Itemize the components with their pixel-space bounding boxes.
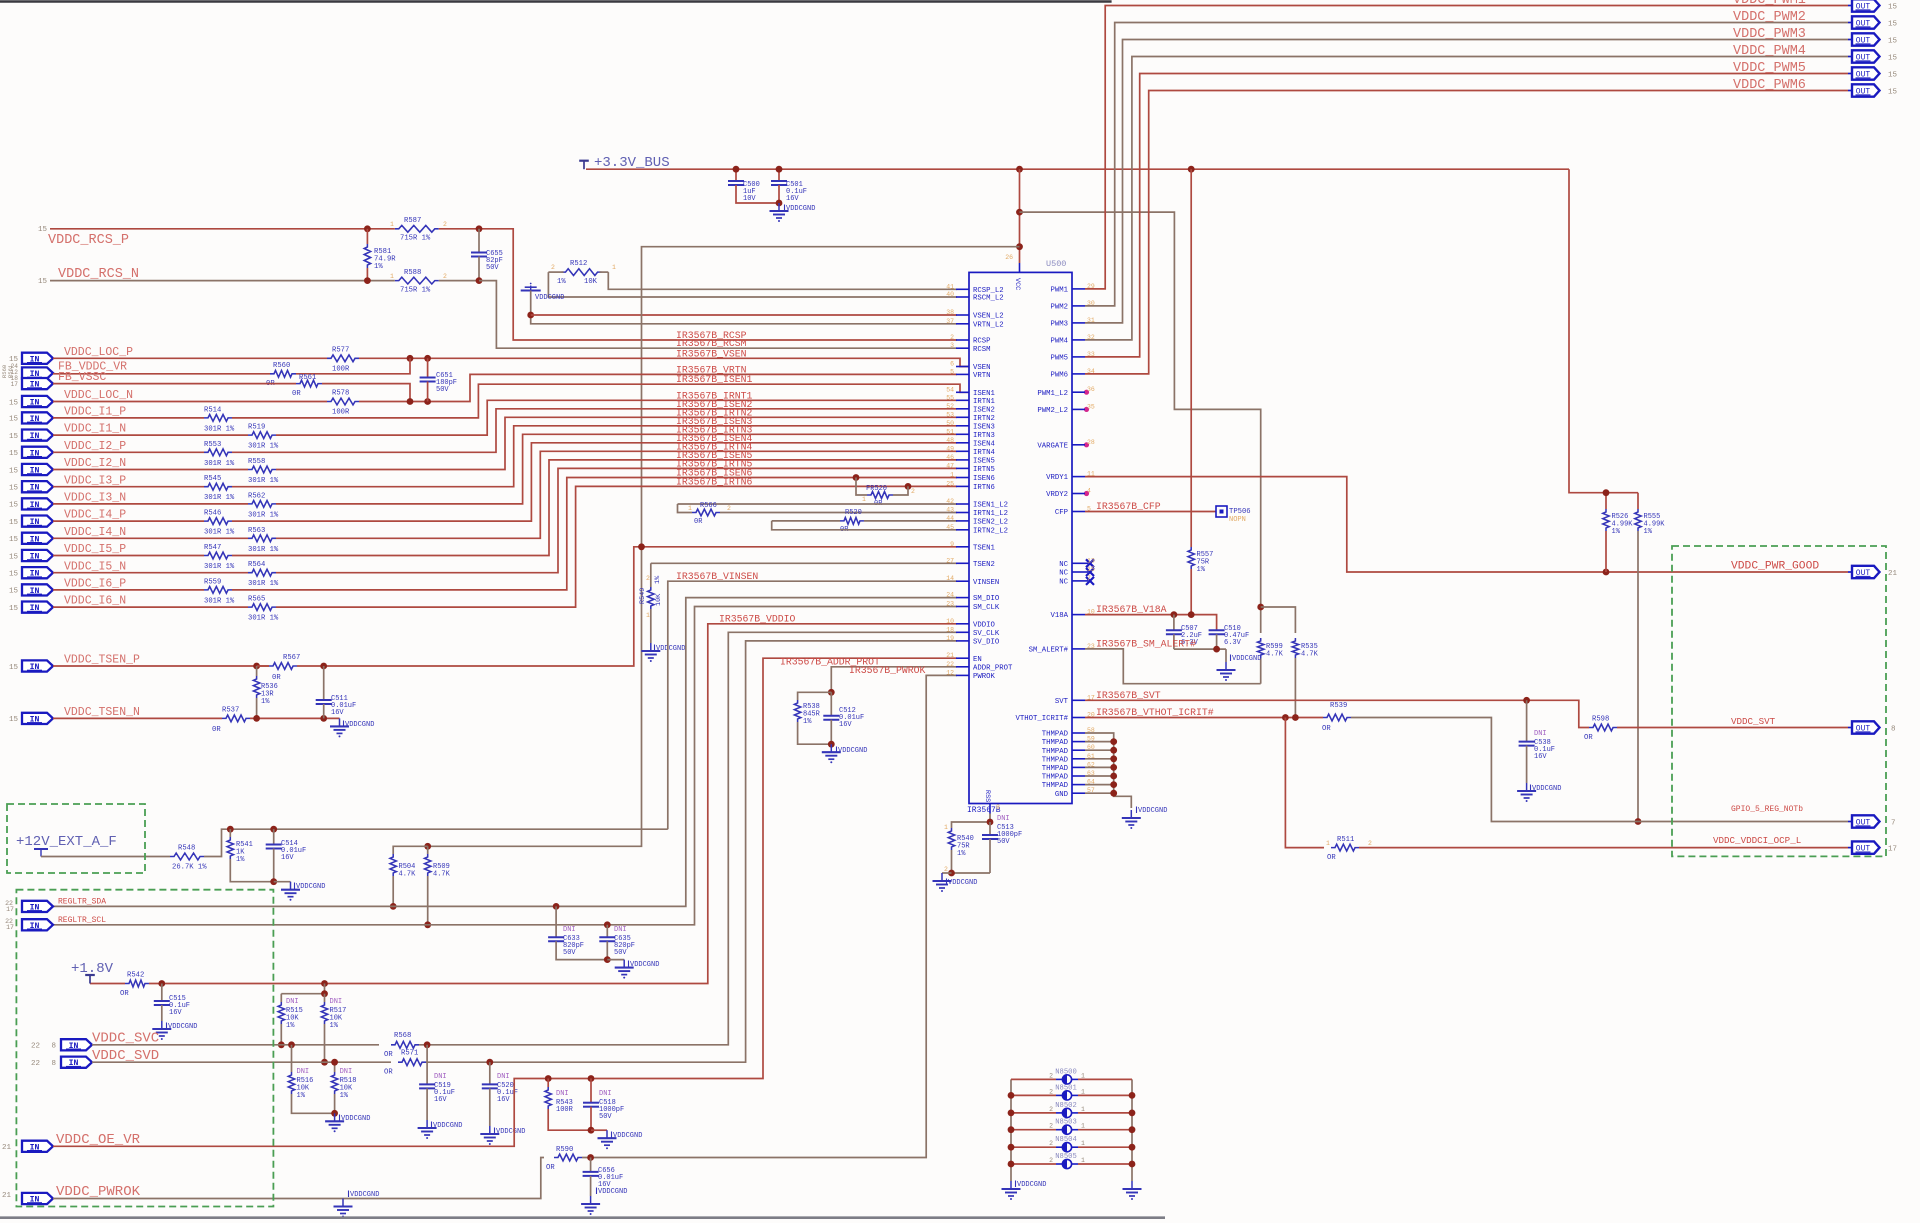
IC pin THMPAD right <box>1072 758 1085 760</box>
resistor R559 <box>204 587 232 594</box>
svg-text:DNI: DNI <box>434 1073 447 1081</box>
svg-text:VDDC_I6_P: VDDC_I6_P <box>64 578 126 591</box>
svg-text:21: 21 <box>946 652 954 659</box>
IC pin SV_CLK <box>956 631 969 633</box>
svg-text:TP506: TP506 <box>1229 508 1251 516</box>
svg-text:715R 1%: 715R 1% <box>400 287 431 295</box>
ground VDDCGND C514 <box>274 881 291 883</box>
title block edge <box>0 1216 1165 1219</box>
wire VDDC_OE_VR to EN <box>53 658 957 1146</box>
svg-text:R553: R553 <box>204 441 221 449</box>
testpoint TP506 <box>1216 506 1227 517</box>
svg-text:55: 55 <box>946 394 954 401</box>
svg-text:22: 22 <box>31 1043 40 1051</box>
resistor R509 <box>427 846 429 854</box>
node VCC pullup branch <box>1016 209 1023 216</box>
resistor R587 <box>395 225 439 232</box>
capacitor C519 DNI <box>426 1045 428 1085</box>
IC U500 IR3567B body <box>969 272 1072 803</box>
svg-text:22: 22 <box>946 661 954 668</box>
capacitor C651 <box>427 358 429 377</box>
IC pin RCSP_L2 <box>956 288 969 290</box>
svg-text:SM_DIO: SM_DIO <box>973 595 1000 603</box>
svg-text:33: 33 <box>1087 351 1095 358</box>
svg-text:64: 64 <box>1087 779 1095 786</box>
svg-text:DNI: DNI <box>563 926 576 934</box>
svg-text:16V: 16V <box>434 1096 447 1104</box>
svg-text:THMPAD: THMPAD <box>1042 739 1069 747</box>
wire R511 branch <box>1285 718 1324 848</box>
nc cross NC1 <box>1085 562 1088 564</box>
IC pin THMPAD right <box>1072 775 1085 777</box>
IC pin SM_CLK <box>956 606 969 608</box>
svg-text:R560: R560 <box>273 362 290 370</box>
resistor R536 <box>256 666 258 676</box>
svg-text:VDDC_I4_N: VDDC_I4_N <box>64 526 126 539</box>
svg-text:VDDC_I1_N: VDDC_I1_N <box>64 423 126 436</box>
svg-text:11: 11 <box>1087 471 1095 478</box>
svg-text:R514: R514 <box>204 406 221 414</box>
svg-text:1%: 1% <box>1644 528 1653 536</box>
svg-text:2: 2 <box>950 334 954 341</box>
wire PWM2 <box>1085 23 1848 306</box>
svg-text:1%: 1% <box>330 1022 339 1030</box>
capacitor C656 <box>590 1158 592 1172</box>
svg-text:VDDCGND: VDDCGND <box>656 645 685 653</box>
wire +3.3V bus horizontal <box>586 168 1569 170</box>
svg-text:VDDC_TSEN_P: VDDC_TSEN_P <box>64 654 140 667</box>
svg-text:NC: NC <box>1059 561 1068 569</box>
node R535 branch <box>1257 604 1264 611</box>
svg-text:IR3567B_CFP: IR3567B_CFP <box>1096 501 1161 512</box>
net tie N8500 <box>1011 1078 1056 1080</box>
capacitor C512 <box>830 692 832 715</box>
wire THMPAD bus <box>1085 733 1131 808</box>
IC pin IRTN6 <box>956 485 969 487</box>
resistor R567 <box>269 663 297 670</box>
svg-text:OR: OR <box>1322 725 1331 733</box>
svg-text:IR3567B_V18A: IR3567B_V18A <box>1096 604 1167 615</box>
node dangling PWM2_L2 <box>1084 407 1089 412</box>
svg-text:25: 25 <box>946 480 954 487</box>
svg-text:VDDC_VDDCI_OCP_L: VDDC_VDDCI_OCP_L <box>1713 835 1801 846</box>
svg-text:63: 63 <box>1087 770 1095 777</box>
svg-text:51: 51 <box>946 428 954 435</box>
svg-text:THMPAD: THMPAD <box>1042 765 1069 773</box>
svg-text:1: 1 <box>1081 1157 1085 1164</box>
IC pin RSCM_L2 <box>956 296 969 298</box>
IC pin ISEN5 <box>956 459 969 461</box>
svg-text:R568: R568 <box>394 1032 411 1040</box>
top frame edge <box>0 0 1112 3</box>
wire PWM4 <box>1085 57 1848 340</box>
svg-text:VDDCGND: VDDCGND <box>630 961 659 969</box>
svg-text:10: 10 <box>946 618 954 625</box>
svg-text:VTHOT_ICRIT#: VTHOT_ICRIT# <box>1015 715 1068 723</box>
svg-text:R520: R520 <box>845 509 862 517</box>
svg-text:VDDCGND: VDDCGND <box>1232 655 1261 663</box>
svg-text:2: 2 <box>1368 840 1372 847</box>
resistor R562 <box>248 501 276 508</box>
wire IRTN2_L2 <box>772 521 957 530</box>
svg-text:301R 1%: 301R 1% <box>248 511 279 519</box>
svg-text:10V: 10V <box>743 195 756 203</box>
svg-text:26.7K 1%: 26.7K 1% <box>172 864 207 872</box>
svg-text:1%: 1% <box>340 1092 349 1100</box>
wire VDDC_LOC_P <box>53 357 327 359</box>
ground VDDCGND C633/C635 <box>607 959 624 961</box>
svg-text:ADDR_PROT: ADDR_PROT <box>973 664 1013 672</box>
svg-text:DNI: DNI <box>340 1068 353 1076</box>
ground VDDCGND at R512 <box>530 286 532 291</box>
svg-text:R567: R567 <box>283 654 300 662</box>
svg-text:ISEN2_L2: ISEN2_L2 <box>973 519 1008 527</box>
net tie N8504 <box>1011 1146 1056 1148</box>
resistor R560 <box>270 370 296 377</box>
svg-text:OR: OR <box>384 1069 393 1077</box>
svg-text:41: 41 <box>946 283 954 290</box>
svg-text:VDDC_PWM1: VDDC_PWM1 <box>1733 0 1806 8</box>
resistor R539 <box>1323 714 1351 721</box>
svg-text:R588: R588 <box>404 269 421 277</box>
svg-text:30: 30 <box>1087 300 1095 307</box>
wire C507/C510 ground rail <box>1174 648 1226 650</box>
resistor R598 <box>1589 724 1617 731</box>
wire VDDC_I5_N <box>53 572 248 574</box>
svg-text:1: 1 <box>1081 1106 1085 1113</box>
svg-text:PWM5: PWM5 <box>1050 355 1068 363</box>
svg-text:SVT: SVT <box>1055 698 1069 706</box>
svg-text:8: 8 <box>1891 726 1896 734</box>
svg-text:VRDY2: VRDY2 <box>1046 491 1068 499</box>
svg-text:1%: 1% <box>286 1022 295 1030</box>
IC pin THMPAD right <box>1072 749 1085 751</box>
wire VDDC_I4_P <box>53 520 204 522</box>
port VDDC_SVT OUT <box>1848 727 1852 729</box>
port VDDC_PWM2 OUT <box>1848 22 1852 24</box>
port VDDC_PWM3 OUT <box>1848 39 1852 41</box>
port VDDC_PWM1 OUT <box>1848 5 1852 7</box>
svg-text:TSEN1: TSEN1 <box>973 544 996 552</box>
svg-text:1: 1 <box>950 472 954 479</box>
svg-text:19: 19 <box>946 635 954 642</box>
svg-text:1: 1 <box>612 264 616 271</box>
svg-text:R577: R577 <box>332 347 349 355</box>
resistor R571 <box>398 1059 426 1066</box>
resistor R548 <box>170 853 204 860</box>
svg-text:1%: 1% <box>297 1092 306 1100</box>
svg-text:IR3567B_ISEN1: IR3567B_ISEN1 <box>676 374 753 385</box>
svg-text:12: 12 <box>946 669 954 676</box>
svg-text:1%: 1% <box>557 278 566 286</box>
svg-text:15: 15 <box>1888 4 1898 12</box>
power +3.3V_BUS <box>583 161 585 170</box>
capacitor C655 <box>478 229 480 253</box>
svg-text:27: 27 <box>946 557 954 564</box>
IC pin GND right <box>1072 792 1085 794</box>
svg-text:50V: 50V <box>997 838 1010 846</box>
nc cross NC2 <box>1085 571 1088 573</box>
IC pin ISEN4 <box>956 442 969 444</box>
capacitor C507 <box>1173 615 1175 631</box>
resistor R518 DNI <box>334 1062 336 1072</box>
resistor R504 <box>390 854 396 876</box>
green dashed box bottom-left <box>16 890 273 1207</box>
svg-text:OR: OR <box>546 1164 555 1172</box>
svg-text:IRTN2_L2: IRTN2_L2 <box>973 527 1008 535</box>
svg-text:VDDCGND: VDDCGND <box>948 879 977 887</box>
svg-text:15: 15 <box>1888 89 1898 97</box>
resistor R577 <box>327 355 359 362</box>
svg-text:VDDC_PWM3: VDDC_PWM3 <box>1733 27 1806 42</box>
svg-text:29: 29 <box>1087 283 1095 290</box>
svg-text:DNI: DNI <box>556 1090 569 1098</box>
resistor R599 <box>1258 638 1264 658</box>
capacitor C515 <box>161 984 163 1002</box>
svg-text:4.7K: 4.7K <box>1301 651 1319 659</box>
svg-text:14: 14 <box>946 575 954 582</box>
svg-text:R558: R558 <box>248 458 265 466</box>
wire VDDC_I1_N <box>53 434 248 436</box>
IC pin PWM2_L2 right <box>1072 408 1085 410</box>
svg-text:OR: OR <box>1584 734 1593 742</box>
svg-text:V18A: V18A <box>1050 612 1068 620</box>
svg-text:15: 15 <box>9 664 19 672</box>
wire VCC riser <box>1019 169 1021 263</box>
svg-text:301R 1%: 301R 1% <box>248 580 279 588</box>
resistor R561 <box>296 380 322 387</box>
resistor R566 <box>678 504 693 513</box>
wire R539 to GPIO_5_REG_NOTb <box>1351 718 1848 822</box>
svg-text:13: 13 <box>1087 557 1095 564</box>
svg-text:IR3567B_VSEN: IR3567B_VSEN <box>676 348 747 359</box>
svg-text:1: 1 <box>944 824 948 831</box>
svg-text:DNI: DNI <box>286 998 299 1006</box>
wire R598 to VDDC_SVT out <box>1617 727 1848 729</box>
svg-text:N8503: N8503 <box>1055 1119 1077 1127</box>
ground VDDCGND C512 <box>830 744 832 752</box>
wire VDDC_I1_P <box>53 417 204 419</box>
wire VDDC_I3_P <box>53 486 204 488</box>
ground VDDCGND C518 <box>591 1129 607 1131</box>
wire THMPAD pin <box>1085 758 1114 760</box>
svg-text:16V: 16V <box>331 709 344 717</box>
wire branch to R535 <box>1261 607 1296 633</box>
IC pin CFP right <box>1072 511 1085 513</box>
IC pin VSEN <box>956 366 969 368</box>
svg-text:60: 60 <box>1087 744 1095 751</box>
svg-text:301R 1%: 301R 1% <box>204 563 235 571</box>
capacitor C538 DNI <box>1526 700 1528 741</box>
svg-text:VDDCGND: VDDCGND <box>433 1122 462 1130</box>
svg-text:1: 1 <box>862 496 866 503</box>
wire VDDC_RCS_N <box>50 280 367 282</box>
resistor R581 <box>364 244 370 268</box>
svg-text:R587: R587 <box>404 217 421 225</box>
svg-text:PWM2_L2: PWM2_L2 <box>1037 407 1068 415</box>
svg-text:4.7K: 4.7K <box>399 871 417 879</box>
svg-text:OR: OR <box>120 990 129 998</box>
svg-text:0R: 0R <box>272 674 281 682</box>
IC pin IRTN5 <box>956 467 969 469</box>
wire +12V to VINSEN <box>668 581 957 829</box>
wire +12V_EXT_A_F <box>41 856 170 858</box>
capacitor C513 DNI <box>989 822 991 835</box>
svg-text:15: 15 <box>38 226 48 234</box>
svg-text:20: 20 <box>1087 712 1095 719</box>
svg-text:THMPAD: THMPAD <box>1042 756 1069 764</box>
svg-text:GND: GND <box>1055 791 1069 799</box>
IC pin PWM2 right <box>1072 305 1085 307</box>
svg-text:50V: 50V <box>486 264 499 272</box>
port VDDC_PWM4 OUT <box>1848 56 1852 58</box>
svg-text:PWM6: PWM6 <box>1050 372 1068 380</box>
IC pin ISEN2 <box>956 408 969 410</box>
svg-text:R571: R571 <box>401 1049 418 1057</box>
svg-text:NOPN: NOPN <box>1229 516 1246 524</box>
IC pin THMPAD right <box>1072 784 1085 786</box>
svg-text:8: 8 <box>51 1060 56 1068</box>
svg-text:ISEN6: ISEN6 <box>973 475 995 483</box>
node dangling PWM1_L2 <box>1084 390 1089 395</box>
ground VDDCGND on PWROK wire <box>342 1199 344 1207</box>
svg-text:1%: 1% <box>654 575 662 584</box>
svg-text:16V: 16V <box>1534 753 1547 761</box>
svg-text:34: 34 <box>1087 368 1095 375</box>
svg-text:49: 49 <box>946 445 954 452</box>
svg-text:2: 2 <box>443 221 447 228</box>
svg-text:VDDC_I2_N: VDDC_I2_N <box>64 457 126 470</box>
svg-text:3: 3 <box>950 342 954 349</box>
svg-text:FB_VSSC: FB_VSSC <box>58 371 106 384</box>
svg-text:4: 4 <box>1087 488 1091 495</box>
IC pin VRTN <box>956 373 969 375</box>
svg-text:2: 2 <box>727 505 731 512</box>
svg-text:15: 15 <box>1888 38 1898 46</box>
IC pin SV_DIO <box>956 640 969 642</box>
IC pin VRTN_L2 <box>956 323 969 325</box>
svg-text:100R: 100R <box>332 366 350 374</box>
svg-text:VDDCGND: VDDCGND <box>341 1115 370 1123</box>
svg-text:IR3567B_VINSEN: IR3567B_VINSEN <box>676 571 758 582</box>
svg-text:R512: R512 <box>570 260 587 268</box>
capacitor C514 <box>273 829 275 844</box>
node R509 tap <box>424 843 431 850</box>
svg-text:R566: R566 <box>700 502 717 510</box>
svg-text:IR3567B_SM_ALERT#: IR3567B_SM_ALERT# <box>1096 639 1196 650</box>
net tie N8501 <box>1011 1094 1056 1096</box>
svg-text:1: 1 <box>1081 1123 1085 1130</box>
svg-text:+12V_EXT_A_F: +12V_EXT_A_F <box>16 834 117 850</box>
ground VDDCGND R540 <box>942 872 952 874</box>
svg-text:50: 50 <box>946 420 954 427</box>
svg-text:15: 15 <box>9 571 19 579</box>
IC pin THMPAD right <box>1072 732 1085 734</box>
net tie rails <box>1010 1079 1012 1181</box>
svg-text:52: 52 <box>946 403 954 410</box>
svg-text:DNI: DNI <box>297 1068 310 1076</box>
svg-text:301R 1%: 301R 1% <box>204 460 235 468</box>
svg-text:R564: R564 <box>248 561 265 569</box>
svg-text:THMPAD: THMPAD <box>1042 774 1069 782</box>
svg-text:37: 37 <box>946 318 954 325</box>
IC pin NC right <box>1072 580 1085 582</box>
svg-text:OR: OR <box>384 1051 393 1059</box>
svg-text:VDDC_LOC_N: VDDC_LOC_N <box>64 389 133 402</box>
resistor R526 <box>1605 493 1607 509</box>
green dashed box outputs <box>1672 546 1886 856</box>
svg-text:R598: R598 <box>1592 716 1609 724</box>
svg-text:22: 22 <box>31 1060 40 1068</box>
resistor FR520 <box>853 474 860 481</box>
wire THMPAD pin <box>1085 766 1114 768</box>
svg-text:RSS: RSS <box>983 790 991 802</box>
svg-text:CFP: CFP <box>1055 509 1068 517</box>
wire VDDC_I2_P <box>53 451 204 453</box>
svg-text:VDDC_SVT: VDDC_SVT <box>1731 716 1776 727</box>
resistor R520 <box>840 518 864 525</box>
net tie N8505 <box>1011 1163 1056 1165</box>
svg-text:1: 1 <box>1081 1072 1085 1079</box>
wire REGLTR_SCL to SM_CLK <box>53 607 957 925</box>
svg-text:VINSEN: VINSEN <box>973 579 999 587</box>
svg-text:8: 8 <box>996 804 1000 811</box>
resistor R563 <box>248 535 276 542</box>
svg-text:23: 23 <box>1087 643 1095 650</box>
resistor R514 <box>204 415 232 422</box>
svg-text:IRTN3: IRTN3 <box>973 432 995 440</box>
svg-text:5: 5 <box>1087 506 1091 513</box>
svg-text:IRTN1_L2: IRTN1_L2 <box>973 510 1008 518</box>
IC pin VINSEN <box>956 580 969 582</box>
ground VDDCGND C515 <box>161 1021 163 1029</box>
wire FB_VDDC_VR <box>53 373 270 375</box>
svg-text:0R: 0R <box>694 518 703 526</box>
svg-text:15: 15 <box>9 416 19 424</box>
svg-text:RCSM: RCSM <box>973 346 991 354</box>
svg-text:DNI: DNI <box>1534 730 1547 738</box>
IC pin ISEN1 <box>956 391 969 393</box>
IC pin NC right <box>1072 571 1085 573</box>
svg-text:RCSP: RCSP <box>973 338 991 346</box>
svg-text:15: 15 <box>1888 72 1898 80</box>
svg-text:VDDC_PWM4: VDDC_PWM4 <box>1733 44 1806 59</box>
capacitor C635 DNI <box>604 921 611 928</box>
svg-text:15: 15 <box>9 485 19 493</box>
wire VRDY1 to VDDC_PWR_GOOD <box>1085 477 1848 572</box>
svg-text:U500: U500 <box>1046 259 1066 269</box>
svg-text:36: 36 <box>1087 386 1095 393</box>
svg-text:VDDCGND: VDDCGND <box>613 1132 642 1140</box>
svg-text:R578: R578 <box>332 390 349 398</box>
wire THMPAD pin <box>1085 784 1114 786</box>
IC pin EN <box>956 657 969 659</box>
IC pin IRTN3 <box>956 433 969 435</box>
resistor R558 <box>248 466 276 473</box>
svg-text:VDDC_I5_N: VDDC_I5_N <box>64 560 126 573</box>
net tie N8503 <box>1011 1129 1056 1131</box>
svg-text:VDDCGND: VDDCGND <box>168 1023 197 1031</box>
IC pin THMPAD right <box>1072 741 1085 743</box>
svg-text:VDDC_I3_N: VDDC_I3_N <box>64 492 126 505</box>
IC pin TSEN2 <box>956 562 969 564</box>
svg-text:FR520: FR520 <box>866 485 887 493</box>
svg-text:28: 28 <box>1087 439 1095 446</box>
svg-text:61: 61 <box>1087 753 1095 760</box>
resistor R538 <box>798 692 832 700</box>
wire PWM1 <box>1085 6 1848 289</box>
svg-text:+1.8V: +1.8V <box>71 961 114 977</box>
